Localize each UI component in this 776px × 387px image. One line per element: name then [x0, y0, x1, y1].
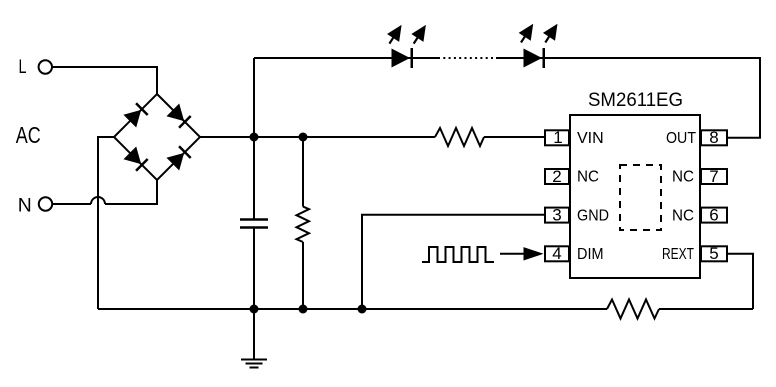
svg-text:L: L	[19, 57, 27, 78]
svg-text:VIN: VIN	[577, 130, 604, 147]
svg-text:7: 7	[709, 167, 718, 186]
svg-text:1: 1	[553, 128, 562, 147]
svg-text:NC: NC	[672, 169, 694, 186]
svg-text:NC: NC	[577, 169, 599, 186]
svg-text:2: 2	[552, 167, 561, 186]
svg-text:6: 6	[709, 206, 718, 225]
svg-text:NC: NC	[672, 207, 694, 224]
svg-text:N: N	[18, 195, 32, 217]
svg-text:3: 3	[552, 206, 561, 225]
svg-text:REXT: REXT	[662, 246, 694, 263]
svg-text:4: 4	[552, 244, 561, 263]
svg-text:OUT: OUT	[666, 130, 696, 147]
svg-text:DIM: DIM	[577, 246, 604, 263]
svg-text:SM2611EG: SM2611EG	[588, 90, 683, 111]
svg-text:AC: AC	[16, 122, 41, 148]
svg-text:GND: GND	[577, 207, 609, 224]
svg-text:8: 8	[709, 128, 718, 147]
svg-text:5: 5	[709, 244, 718, 263]
